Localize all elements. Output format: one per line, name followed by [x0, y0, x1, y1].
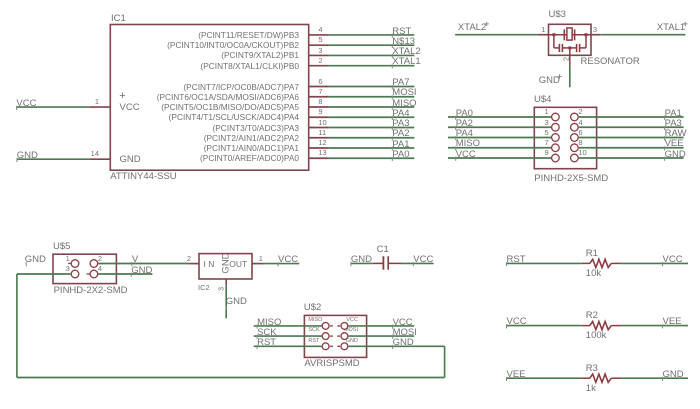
- wire U$2 to net VCC: [348, 325, 414, 327]
- resistor R2 name: [586, 311, 598, 321]
- IC1 pin 2 stub: [309, 65, 329, 67]
- wire VEE to R3: [507, 377, 582, 379]
- U$4 pin 1 number: [544, 108, 548, 116]
- net label MISO: [257, 318, 281, 328]
- U$2 left pad circle row 2: [322, 333, 329, 340]
- IC1 pin 14 number: [91, 150, 99, 158]
- U$4 pin 8 number: [578, 139, 582, 147]
- regulator IC2 pin 3 stub: [225, 279, 227, 285]
- IC1 pin 13 number: [318, 149, 326, 157]
- wire R3 to GND: [621, 377, 688, 379]
- wire R1 to VCC: [621, 262, 688, 264]
- net label tick GND: [664, 157, 666, 161]
- U$2 right pad circle row 3: [341, 343, 348, 350]
- IC1 pin 9 number: [318, 108, 322, 116]
- net label tick XTAL1: [391, 64, 393, 68]
- net label tick VCC: [506, 324, 508, 328]
- U$2 left pad circle row 3: [322, 343, 329, 350]
- net label XTAL1 cross: [683, 22, 687, 26]
- net label VEE: [665, 139, 684, 149]
- U$4 pin 8 pad circle: [571, 144, 579, 152]
- microcontroller IC1 reference label: [111, 14, 126, 24]
- wire net RST to U$2: [254, 345, 322, 347]
- net label RST: [507, 255, 526, 265]
- wire U$2 to net MOSI: [348, 335, 414, 337]
- net label GND cross: [557, 74, 561, 78]
- resonator pin 2 number: [562, 57, 570, 61]
- net label VEE: [663, 317, 682, 327]
- IC1 pin 12 number: [318, 139, 326, 147]
- net label tick PA0: [391, 157, 393, 161]
- net label tick MOSI: [392, 335, 394, 339]
- regulator IC2 pin IN name: [204, 260, 217, 269]
- U$2 internal pin name MISO: [308, 318, 322, 324]
- microcontroller IC1 ATTINY44-SSU body: [110, 25, 308, 171]
- U$2 right pad stub row 3: [337, 345, 340, 347]
- net label tick SCK: [256, 335, 258, 339]
- net label RST: [392, 27, 411, 37]
- capacitor C1 left plate: [382, 256, 384, 270]
- IC1 pin 12 stub: [309, 147, 329, 149]
- pin header U$5 reference label: [53, 242, 70, 252]
- net label VEE: [507, 370, 526, 380]
- net label tick VCC at C1: [412, 262, 414, 266]
- resistor R2: [582, 322, 621, 330]
- IC1 pin 3 stub: [309, 54, 329, 56]
- U$2 right pad circle row 2: [341, 333, 348, 340]
- IC1 pin 8 name (PCINT5/OC1B/MISO/DO/ADC5)PA5: [161, 103, 299, 111]
- wire resonator pin 3 to XTAL1: [600, 34, 685, 36]
- net label tick VEE: [662, 324, 664, 328]
- net label tick PA2: [455, 126, 457, 130]
- net label tick V: [131, 262, 133, 266]
- U$5 pin 4 pad circle: [90, 270, 98, 278]
- net label tick PA7: [391, 85, 393, 89]
- net label PA3: [392, 119, 409, 129]
- net label tick PA3: [391, 126, 393, 130]
- U$4 pin 9 pad circle: [552, 154, 560, 162]
- net label GND: [665, 150, 686, 160]
- net label tick RAW: [664, 136, 666, 140]
- U$5 pin 1 stub: [68, 263, 71, 265]
- IC1 pin 10 stub: [309, 127, 329, 129]
- IC1 pin 6 name (PCINT7/ICP/OC0B/ADC7)PA7: [183, 83, 299, 91]
- resonator U$3 reference label: [549, 10, 566, 20]
- net label tick GND: [130, 273, 132, 277]
- net label GND: [17, 151, 38, 161]
- wire GND down from U$2: [444, 346, 446, 377]
- wire net PA1: [329, 147, 415, 149]
- net label GND below IC2: [226, 297, 247, 307]
- net label VCC: [456, 150, 476, 160]
- wire VCC to IC1 pin 1: [16, 106, 89, 108]
- IC1 pin 7 number: [318, 88, 322, 96]
- net label RAW: [665, 129, 687, 139]
- net label tick PA0: [455, 116, 457, 120]
- net label tick XTAL2: [391, 54, 393, 58]
- net label tick VCC: [662, 262, 664, 266]
- IC1 pin 5 name (PCINT10/INT0/OC0A/CKOUT)PB2: [167, 41, 299, 49]
- net label RST: [257, 338, 276, 348]
- resonator center capacitor connection: [562, 47, 576, 49]
- net label GND: [663, 370, 684, 380]
- junction dot resonator pin 3 side: [585, 33, 588, 36]
- wire down left side: [16, 274, 18, 378]
- net label XTAL2: [392, 47, 420, 57]
- regulator IC2 pin GND name rotated: [221, 252, 231, 273]
- net label tick VCC: [16, 106, 18, 110]
- wire net MOSI: [329, 96, 415, 98]
- wire C1 to VCC: [401, 262, 434, 264]
- net label GND at U$5: [25, 255, 46, 265]
- U$2 left pad stub row 2: [330, 335, 333, 337]
- net label SCK: [257, 328, 277, 338]
- net label tick MOSI: [391, 95, 393, 99]
- U$2 internal pin name SCK: [308, 328, 319, 334]
- net label V: [132, 255, 138, 265]
- resonator U$3 body: [549, 24, 592, 55]
- net label GND: [393, 338, 414, 348]
- IC1 pin 10 number: [318, 119, 326, 127]
- wire net PA7: [329, 86, 415, 88]
- U$4 pin 2 number: [578, 108, 582, 116]
- net label XTAL1: [392, 57, 420, 67]
- net label tick VCC: [455, 157, 457, 161]
- IC1 pin 11 stub: [309, 137, 329, 139]
- net label PA1: [392, 140, 409, 150]
- resonator U$3 value RESONATOR: [581, 57, 640, 67]
- resistor R3 name: [586, 364, 598, 374]
- crystal right plate: [574, 29, 576, 40]
- net label PA3: [665, 119, 682, 129]
- U$2 right pad circle row 1: [341, 323, 348, 330]
- U$2 internal pin name GND: [346, 339, 358, 345]
- net label PA1: [665, 109, 682, 119]
- U$5 pin 2 pad circle: [90, 260, 98, 268]
- net label tick MISO: [256, 325, 258, 329]
- net label tick MISO: [391, 106, 393, 110]
- net label PA7: [392, 78, 409, 88]
- net label VCC: [507, 317, 527, 327]
- net label PA4: [392, 109, 409, 119]
- connector U$2 body: [304, 315, 366, 357]
- resonator U$3 pin 1 stub: [538, 34, 549, 36]
- net label tick GND: [662, 377, 664, 381]
- net label tick RST: [506, 262, 508, 266]
- wire net MISO: [329, 106, 415, 108]
- net label XTAL2: [458, 23, 486, 33]
- net label tick RST: [391, 34, 393, 38]
- U$2 left pad stub row 1: [330, 325, 333, 327]
- wire net PA0: [329, 157, 415, 159]
- wire U$4 pin 8 to net VEE: [579, 147, 684, 149]
- IC1 pin 9 stub: [309, 116, 329, 118]
- capacitor C1 reference label: [377, 245, 389, 255]
- IC1 pin 3 number: [318, 47, 322, 55]
- IC1 pin 4 number: [318, 26, 322, 34]
- U$4 pin 6 pad circle: [571, 134, 579, 142]
- U$2 internal pin name RST: [308, 339, 319, 345]
- U$4 pin 4 number: [578, 119, 582, 127]
- net label MISO: [392, 99, 416, 109]
- IC1 pin 9 name (PCINT4/T1/SCL/USCK/ADC4)PA4: [169, 113, 299, 121]
- capacitor C1 right lead: [389, 262, 401, 264]
- net label tick VEE: [664, 146, 666, 150]
- resistor R3: [582, 374, 621, 382]
- resonator U$3 pin 3 stub: [591, 34, 600, 36]
- wire net PA3: [329, 127, 415, 129]
- net label PA0: [392, 150, 409, 160]
- wire resonator pin 2 to GND: [569, 66, 571, 88]
- resistor R3 value 1k: [586, 384, 596, 394]
- wire U$5 pin 4 GND stub: [98, 273, 152, 275]
- net label MISO: [456, 139, 480, 149]
- U$4 pin 7 number: [544, 139, 548, 147]
- net label XTAL1: [657, 23, 685, 33]
- junction dot resonator pin 1 side: [552, 33, 555, 36]
- U$2 left pad stub row 3: [330, 345, 333, 347]
- net label N$13: [392, 37, 415, 47]
- IC1 pin 8 stub: [309, 106, 329, 108]
- IC1 pin 5 stub: [309, 44, 329, 46]
- U$2 right pad stub row 2: [337, 335, 340, 337]
- net label GND at C1: [351, 255, 372, 265]
- U$5 pin 1 pad circle: [71, 260, 79, 268]
- net label VCC: [393, 318, 413, 328]
- IC1 pin 1 number: [95, 98, 99, 106]
- resonator pin 2 stub: [569, 48, 571, 66]
- wire net MISO to U$2: [254, 325, 322, 327]
- net label VCC: [663, 255, 683, 265]
- net label tick VCC: [392, 325, 394, 329]
- regulator IC2 pin 2 stub: [188, 263, 199, 265]
- net label tick PA1: [664, 116, 666, 120]
- wire bottom ground run: [17, 377, 445, 379]
- regulator IC2 body: [199, 254, 252, 279]
- resistor R2 value 100k: [586, 331, 607, 341]
- regulator IC2 pin 2 number: [187, 255, 191, 263]
- wire net PA4 to U$4 pin 5: [448, 137, 552, 139]
- net label tick GND: [16, 158, 18, 162]
- IC1 pin 7 stub: [309, 96, 329, 98]
- wire U$4 pin 6 to net RAW: [579, 137, 684, 139]
- wire U$4 pin 2 to net PA1: [579, 116, 684, 118]
- net label tick PA2: [391, 136, 393, 140]
- net label tick VEE: [506, 377, 508, 381]
- pin header U$4 reference label: [534, 95, 551, 105]
- IC1 pin 11 name (PCINT2/AIN1/ADC2)PA2: [204, 134, 299, 142]
- U$5 pin 2 number: [98, 255, 102, 263]
- net label PA4: [456, 129, 473, 139]
- IC1 pin 6 stub: [309, 86, 329, 88]
- crystal body rectangle: [567, 28, 572, 40]
- wire RST to R1: [507, 262, 582, 264]
- resonator U$3 pin 3 number: [593, 26, 597, 34]
- wire U$4 pin 10 to net GND: [579, 157, 684, 159]
- resonator U$3 pin 1 number: [541, 26, 545, 34]
- U$2 left pad circle row 1: [322, 323, 329, 330]
- net label GND: [131, 266, 152, 276]
- net label tick MISO: [455, 146, 457, 150]
- wire net SCK to U$2: [254, 335, 322, 337]
- net label PA2: [392, 129, 409, 139]
- wire XTAL2 to resonator pin 1: [455, 34, 538, 36]
- net label tick PA3: [664, 126, 666, 130]
- connector U$2 value AVRISPSMD: [304, 359, 359, 369]
- U$4 pin 10 pad circle: [571, 154, 579, 162]
- net label VCC: [16, 99, 36, 109]
- net label PA0: [456, 109, 473, 119]
- IC1 pin 14 stub: [89, 158, 110, 160]
- IC1 pin 10 name (PCINT3/T0/ADC3)PA3: [212, 124, 299, 132]
- U$4 pin 5 pad circle: [552, 134, 560, 142]
- pin header U$5 value PINHD-2X2-SMD: [54, 286, 128, 296]
- U$5 pin 3 number: [66, 265, 70, 273]
- net label VCC at C1: [413, 255, 433, 265]
- wire net PA2 to U$4 pin 3: [448, 126, 552, 128]
- IC1 pin 6 number: [318, 78, 322, 86]
- U$4 pin 9 number: [544, 149, 548, 157]
- IC1 pin 12 name (PCINT1/AIN0/ADC1)PA1: [204, 144, 299, 152]
- net label tick N$13: [391, 44, 393, 48]
- pin header U$5 body: [53, 254, 116, 283]
- net label tick GND at U$5: [25, 262, 27, 266]
- crystal left plate: [563, 29, 565, 40]
- capacitor C1 right plate: [387, 256, 389, 270]
- wire IC2 OUT to VCC: [263, 263, 299, 265]
- U$5 pin 3 pad circle: [71, 270, 79, 278]
- IC1 pin 2 name (PCINT8/XTAL1/CLKI)PB0: [200, 62, 299, 70]
- wire U$5 pin 2 to IC2 IN: [98, 263, 188, 265]
- resistor R1 name: [586, 249, 598, 259]
- IC1 pin 1 stub: [89, 106, 110, 108]
- net label tick RST: [256, 345, 258, 349]
- IC1 pin 4 stub: [309, 34, 329, 36]
- wire IC2 GND down: [225, 285, 227, 318]
- wire net PA2: [329, 137, 415, 139]
- net label MOSI: [392, 88, 416, 98]
- regulator IC2 reference label: [198, 284, 210, 292]
- pin header U$4 body: [534, 107, 596, 168]
- U$4 pin 7 pad circle: [552, 144, 560, 152]
- regulator IC2 pin 1 stub: [252, 263, 263, 265]
- wire net N$13: [329, 44, 415, 46]
- IC1 pin 13 name (PCINT0/AREF/ADC0)PA0: [200, 154, 299, 162]
- IC1 internal power pin names + VCC GND: [0, 0, 700, 1]
- U$4 pin 10 number: [578, 149, 586, 157]
- resistor R1: [582, 259, 621, 267]
- wire net PA4: [329, 116, 415, 118]
- regulator IC2 pin OUT name: [229, 260, 247, 269]
- resonator left capacitor: [554, 35, 563, 52]
- capacitor C1 left lead: [373, 262, 383, 264]
- net label tick GND: [392, 345, 394, 349]
- net label tick PA4: [391, 116, 393, 120]
- U$4 pin 1 pad circle: [552, 113, 560, 121]
- net label tick GND below IC2: [225, 306, 227, 310]
- U$4 pin 2 pad circle: [571, 113, 579, 121]
- U$4 pin 4 pad circle: [571, 123, 579, 131]
- net label tick GND at C1: [350, 262, 352, 266]
- U$2 internal pin name MOSI: [344, 328, 358, 334]
- wire GND to C1: [351, 262, 373, 264]
- IC1 pin 8 number: [318, 98, 322, 106]
- wire R2 to VEE: [621, 325, 688, 327]
- net label tick PA4: [455, 136, 457, 140]
- resistor R1 value 10k: [586, 269, 601, 279]
- wire net PA0 to U$4 pin 1: [448, 116, 552, 118]
- wire net XTAL2: [329, 54, 415, 56]
- wire U$2 to net GND: [348, 345, 444, 347]
- U$4 pin 6 number: [578, 129, 582, 137]
- net label XTAL2 cross: [484, 22, 488, 26]
- net label tick PA1: [391, 147, 393, 151]
- U$5 pin 4 number: [98, 265, 102, 273]
- IC1 pin 11 number: [318, 129, 326, 137]
- U$4 pin 5 number: [544, 129, 548, 137]
- junction dot resonator pin 2: [568, 46, 571, 49]
- resonator right capacitor: [577, 35, 586, 52]
- net label MOSI: [393, 328, 417, 338]
- net label GND: [539, 76, 560, 86]
- wire net MISO to U$4 pin 7: [448, 147, 552, 149]
- IC1 pin 3 name (PCINT9/XTAL2)PB1: [221, 51, 299, 59]
- wire net RST: [329, 34, 415, 36]
- U$4 pin 3 number: [544, 119, 548, 127]
- IC1 value ATTINY44-SSU: [110, 172, 176, 182]
- IC1 pin 7 name (PCINT6/OC1A/SDA/MOSI/ADC6)PA6: [157, 93, 299, 101]
- IC1 pin 4 name (PCINT11/RESET/DW)PB3: [198, 31, 299, 39]
- connector U$2 reference label: [304, 303, 321, 313]
- IC1 pin 5 number: [318, 36, 322, 44]
- IC1 pin 13 stub: [309, 157, 329, 159]
- net label VCC: [278, 255, 298, 265]
- net label tick VCC: [277, 262, 279, 266]
- U$4 pin 3 pad circle: [552, 123, 560, 131]
- U$5 pin 4 stub: [87, 273, 90, 275]
- wire VCC to R2: [507, 325, 582, 327]
- wire GND to IC1 pin 14: [17, 158, 90, 160]
- U$5 pin 1 number: [66, 255, 70, 263]
- regulator IC2 pin 3 number rotated: [217, 286, 225, 290]
- regulator IC2 pin 1 number: [259, 255, 263, 263]
- U$2 right pad stub row 1: [337, 325, 340, 327]
- net label PA2: [456, 119, 473, 129]
- U$2 internal pin name VCC: [346, 318, 358, 324]
- wire U$5 pin 3 to left: [17, 273, 71, 275]
- resonator internal node line: [549, 34, 592, 36]
- wire U$4 pin 4 to net PA3: [579, 126, 684, 128]
- wire net XTAL1: [329, 65, 415, 67]
- wire net VCC to U$4 pin 9: [448, 157, 552, 159]
- pin header U$4 value PINHD-2X5-SMD: [534, 174, 608, 184]
- IC1 pin 2 number: [318, 57, 322, 65]
